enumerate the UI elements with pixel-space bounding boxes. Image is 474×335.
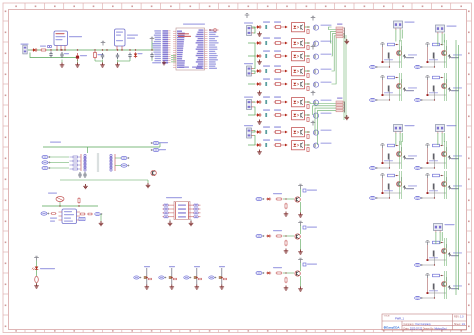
output transistor Q23 <box>184 266 202 289</box>
resistor R6 <box>35 276 39 282</box>
fuse F1 <box>40 49 47 51</box>
optocoupler channel row 9: D,R,C,U opto,Q <box>248 139 332 151</box>
optocoupler channel row 7: D,R,C,U opto,Q <box>248 109 332 121</box>
RN1 ground <box>345 39 350 44</box>
driver cell Q1/Q2 with R,C,output <box>370 40 417 69</box>
header to IC wires <box>171 56 176 62</box>
transceiver U3 <box>62 209 77 224</box>
resistor R5 <box>87 213 93 215</box>
wire bundle from opto rows to P3 <box>329 27 337 84</box>
transformer T1 <box>81 153 115 172</box>
U1 bottom pin rows <box>179 67 189 68</box>
driver Q27 with D,R,C <box>256 258 317 291</box>
output transistor Q21 <box>134 266 152 289</box>
wire bundle from opto rows to P4 <box>310 102 336 145</box>
connector P9 <box>394 125 403 134</box>
VCC arrow pwr led <box>34 256 39 260</box>
U1 left pin names and pins <box>173 31 185 68</box>
net label TX top <box>50 142 61 143</box>
output transistor Q24 <box>209 266 227 289</box>
capacitor C5 <box>116 53 119 59</box>
T1 bottom caps <box>78 172 81 178</box>
optocoupler channel row 5: D,R,C,U opto,Q <box>248 78 332 90</box>
U1 right pin names and pins <box>196 29 208 69</box>
opto input connector P1 <box>247 26 254 36</box>
net label 485 out <box>95 212 102 215</box>
driver cell Q7/Q8 with R,C,output <box>415 73 462 102</box>
driver cell Q19/Q20 with R,C,output <box>415 271 462 300</box>
border row ticks left <box>3 21 9 315</box>
U1 red warning text <box>178 33 189 34</box>
ground under header <box>162 61 166 65</box>
regulator module K1 <box>54 31 68 46</box>
svg-text:⚙EasyEDA: ⚙EasyEDA <box>384 326 401 330</box>
connector P11 <box>434 224 443 233</box>
resistor network RN1 <box>336 27 345 39</box>
U1 right net labels <box>209 30 219 69</box>
U2 pins <box>117 46 122 50</box>
K1 label <box>69 36 82 37</box>
ground above <box>83 184 88 189</box>
opto input link wires <box>253 27 255 145</box>
K1 pins <box>57 46 65 51</box>
wire main rail circuit A <box>28 49 160 51</box>
opto input connector P5 <box>247 100 254 110</box>
border row ticks right <box>467 21 472 315</box>
capacitor C4 <box>101 53 104 59</box>
polarized capacitor C3 <box>76 53 79 61</box>
resistor network RN2 <box>336 101 345 113</box>
border column ticks bottom <box>25 330 451 333</box>
header H1 pin field <box>163 30 171 63</box>
junction dots circuit A <box>50 49 152 50</box>
U1 top right decoupling <box>209 29 218 31</box>
zener D2 <box>134 52 137 58</box>
bottom rail <box>60 179 148 181</box>
U4 left coils <box>164 204 168 206</box>
connector P10 <box>436 125 445 134</box>
optocoupler channel row 6: D,R,C,U opto,Q <box>248 96 332 108</box>
U4 grounds <box>169 220 171 223</box>
optocoupler channel row 3: D,R,C,U opto,Q <box>248 50 332 62</box>
long vertical bus wires <box>344 33 346 120</box>
border column ticks top <box>25 3 451 10</box>
VCC arrow <box>101 41 106 45</box>
wire pwr led <box>36 261 38 285</box>
U3 pins <box>59 212 81 220</box>
svg-text:Sheet: 1/1: Sheet: 1/1 <box>454 323 466 326</box>
driver cell Q15/Q16 with R,C,output <box>415 171 462 200</box>
VCC arrow out <box>150 37 155 41</box>
connector J1 <box>23 45 27 54</box>
title block <box>382 314 467 330</box>
svg-text:Date: 2022-07-22 Drawn By:: Date: 2022-07-22 Drawn By: Mickeyl2nd <box>404 327 448 330</box>
T1 termination resistors <box>73 156 78 158</box>
wire top rail transformer <box>43 146 160 148</box>
driver cell Q17/Q18 with R,C,output <box>415 238 462 267</box>
connector P7 <box>394 21 403 30</box>
label box <box>79 218 85 221</box>
wire return rail circuit A <box>30 53 78 58</box>
IC U1 body <box>176 28 205 70</box>
capacitor C1 <box>49 52 52 58</box>
T1 right net labels <box>121 156 129 159</box>
RN2 ground <box>345 115 350 120</box>
capacitor C6 <box>128 53 131 59</box>
driver cell Q5/Q6 with R,C,output <box>370 73 417 102</box>
resistor R2 vertical <box>78 197 80 203</box>
svg-text:Company: Your Company: Company: Your Company <box>404 323 432 326</box>
diode D1 <box>32 48 38 51</box>
ground RS485 <box>100 214 102 222</box>
ground T1 <box>146 183 151 188</box>
opto side grounds <box>257 32 262 37</box>
rail RS485 <box>42 205 98 207</box>
ground symbols circuit A <box>60 63 65 68</box>
U4 right coils <box>194 204 198 206</box>
driver cell Q3/Q4 with R,C,output <box>415 40 462 69</box>
driver Q25 with D,R,C <box>256 184 317 217</box>
optocoupler channel row 2: D,R,C,U opto,Q <box>248 37 332 49</box>
optocoupler channel row 1: D,R,C,U opto,Q <box>248 21 332 33</box>
inductor L1 <box>47 45 51 47</box>
svg-text:PWR_1: PWR_1 <box>395 317 404 321</box>
svg-text:REV: 1.0: REV: 1.0 <box>454 315 464 318</box>
opto input connector P6 <box>247 128 254 138</box>
connector P8 <box>436 25 445 34</box>
protection diode D3 <box>151 170 156 175</box>
net label 485 input <box>41 212 49 215</box>
resistor R1 <box>94 51 97 59</box>
isolator U4 body <box>174 202 190 220</box>
driver cell Q9/Q10 with R,C,output <box>370 141 417 170</box>
isolator U4 label <box>166 197 182 198</box>
driver Q26 with D,R,C <box>256 221 317 254</box>
VCC arrows above opto transistors <box>311 16 316 20</box>
capacitor C7 <box>150 53 153 59</box>
IC U1 top label <box>183 24 205 25</box>
resistor R3 <box>51 213 57 215</box>
driver cell Q11/Q12 with R,C,output <box>415 141 462 170</box>
opto input connector P2 <box>247 66 254 76</box>
T1 left net labels <box>42 155 50 158</box>
driver group bus verticals <box>456 40 459 295</box>
header H1 left net labels <box>152 30 161 63</box>
crystal Y1 <box>56 197 64 202</box>
resistor R4 <box>79 213 85 215</box>
driver cell Q13/Q14 with R,C,output <box>370 171 417 200</box>
LED D4 <box>32 267 38 271</box>
optocoupler channel row 8: D,R,C,U opto,Q <box>248 126 332 138</box>
optocoupler channel row 4: D,R,C,U opto,Q <box>248 65 332 77</box>
U2 label <box>127 35 138 36</box>
VCC above connector P1 <box>245 14 250 18</box>
capacitor C2 <box>60 52 63 58</box>
regulator module U2 <box>115 29 126 46</box>
ground stubs <box>95 59 152 62</box>
output transistor Q22 <box>159 266 177 289</box>
ground pwr led <box>34 284 39 289</box>
right net label ovals <box>151 141 159 144</box>
svg-text:TITLE:: TITLE: <box>384 316 391 318</box>
